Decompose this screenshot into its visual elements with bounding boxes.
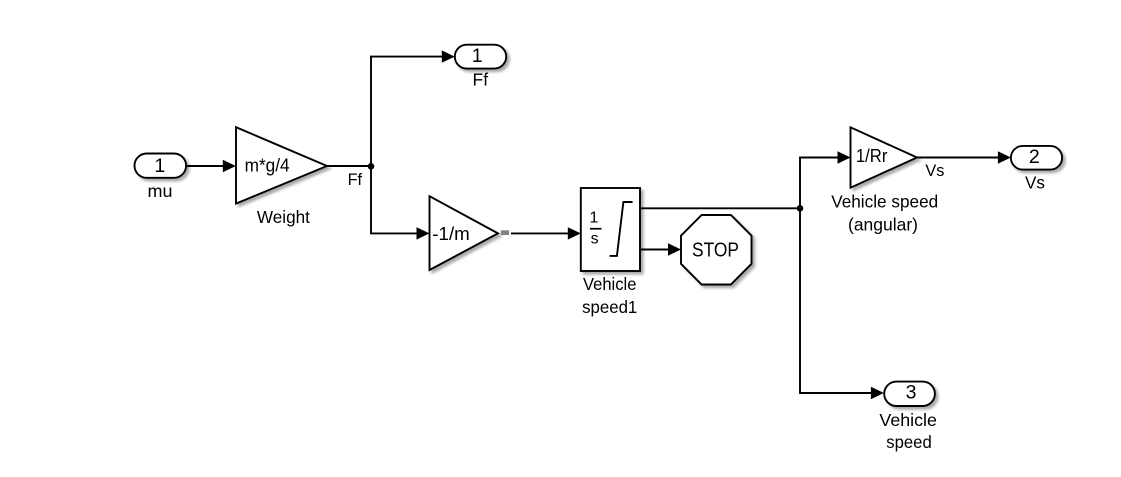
svg-text:speed: speed xyxy=(886,432,932,452)
svg-text:-1/m: -1/m xyxy=(432,223,470,244)
svg-text:STOP: STOP xyxy=(692,240,739,262)
svg-text:Vehicle: Vehicle xyxy=(879,410,937,430)
svg-text:Vs: Vs xyxy=(1025,173,1045,193)
svg-text:2: 2 xyxy=(1029,146,1040,168)
svg-text:Ff: Ff xyxy=(348,171,363,189)
svg-text:(angular): (angular) xyxy=(848,214,918,234)
svg-text:1: 1 xyxy=(590,210,599,227)
svg-text:Weight: Weight xyxy=(257,207,310,227)
svg-text:s: s xyxy=(591,231,599,248)
svg-text:Ff: Ff xyxy=(473,70,489,90)
svg-text:1/Rr: 1/Rr xyxy=(856,145,888,166)
svg-text:speed1: speed1 xyxy=(582,297,637,317)
svg-text:m*g/4: m*g/4 xyxy=(245,155,290,176)
svg-text:1: 1 xyxy=(472,45,483,67)
svg-text:3: 3 xyxy=(906,382,917,404)
svg-text:mu: mu xyxy=(148,181,173,201)
svg-text:Vehicle: Vehicle xyxy=(583,274,637,294)
svg-text:Vehicle speed: Vehicle speed xyxy=(831,192,938,212)
svg-text:1: 1 xyxy=(154,155,165,177)
svg-text:Vs: Vs xyxy=(925,162,944,180)
